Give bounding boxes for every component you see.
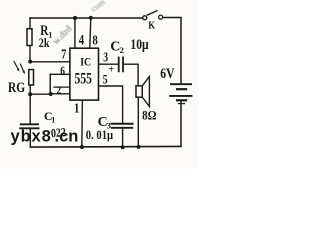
- label 6V: [160, 65, 175, 82]
- wire pin 2 upper: [53, 86, 70, 88]
- speaker LS cone: [142, 77, 149, 107]
- switch K right contact: [159, 15, 163, 19]
- wire pin 6: [50, 73, 70, 75]
- wire pin 5: [99, 86, 123, 124]
- capacitor C1 plate top: [20, 123, 39, 125]
- svg-text:2: 2: [57, 85, 62, 97]
- battery B1 plate long top: [170, 83, 192, 85]
- label 555: [75, 71, 93, 88]
- label RG: [8, 78, 25, 95]
- svg-text:ybx8: ybx8: [11, 127, 52, 145]
- junction dot C3 ground: [121, 145, 125, 149]
- pink watermark streak: [51, 24, 74, 47]
- capacitor C1 plate bottom: [19, 127, 39, 129]
- switch K arm: [147, 11, 158, 16]
- svg-text:.cn: .cn: [55, 127, 79, 145]
- svg-text:0. 01μ: 0. 01μ: [86, 128, 114, 142]
- svg-text:3: 3: [103, 50, 108, 65]
- label pin 2: [57, 85, 62, 97]
- label R1: [40, 22, 49, 39]
- svg-text:10μ: 10μ: [130, 36, 149, 53]
- svg-text:7: 7: [61, 46, 66, 62]
- battery B1 plate short 2: [176, 99, 187, 101]
- speaker LS coil: [136, 86, 142, 97]
- svg-text:8Ω: 8Ω: [142, 108, 157, 123]
- label pin 1: [74, 100, 79, 115]
- label 2k: [39, 36, 50, 50]
- light arrows: [14, 61, 25, 74]
- svg-text:8: 8: [92, 32, 97, 48]
- label K: [148, 20, 155, 32]
- wire vertical pins 6-2: [49, 74, 51, 95]
- battery B1 plate long bottom: [169, 95, 192, 97]
- svg-text:IC: IC: [80, 56, 91, 69]
- wire node B to C1: [29, 94, 31, 124]
- wire left rail top lead: [29, 17, 31, 29]
- wire C1 to ground rail: [29, 128, 31, 147]
- junction dot pin 8 rail: [89, 16, 93, 20]
- node B junction dot: [28, 92, 32, 96]
- svg-text:5: 5: [103, 74, 108, 88]
- wire bottom rail: [30, 145, 182, 148]
- wire R1 to node A: [29, 46, 31, 63]
- label 0.01u: [86, 128, 114, 142]
- svg-text:1: 1: [51, 115, 55, 124]
- svg-text:1: 1: [74, 100, 79, 115]
- junction dot pin 1 ground: [80, 145, 84, 149]
- op IC 555 body: [70, 48, 99, 100]
- label pin 8: [92, 32, 97, 48]
- svg-text:555: 555: [75, 71, 93, 88]
- svg-text:+: +: [108, 65, 114, 76]
- node A junction dot: [28, 60, 32, 64]
- label 10u: [130, 36, 149, 53]
- wire node B to pins 2-6 vertical: [30, 93, 51, 95]
- svg-text:2k: 2k: [39, 36, 50, 50]
- resistor R1: [27, 29, 32, 46]
- svg-text:RG: RG: [8, 78, 25, 95]
- wire pin 1: [81, 100, 84, 147]
- capacitor C2 plate left: [118, 57, 120, 73]
- wire C2 to speaker: [124, 64, 138, 86]
- battery B1 bottom tick: [178, 103, 185, 105]
- battery B1 plate short 1: [176, 88, 187, 90]
- label pin 4: [79, 31, 85, 48]
- wire right rail lower: [180, 100, 182, 147]
- svg-text:6V: 6V: [160, 65, 175, 82]
- label C1 value 022: [51, 126, 67, 140]
- junction dot speaker ground: [137, 145, 141, 149]
- label pin 7: [61, 46, 66, 62]
- switch K left contact: [143, 16, 147, 20]
- label pin 3: [103, 50, 108, 65]
- wire top rail left segment: [29, 17, 142, 19]
- wire top rail right segment: [163, 17, 182, 19]
- pink watermark top: [89, 0, 107, 13]
- label pin 6: [60, 65, 65, 79]
- wire right rail upper: [180, 18, 182, 85]
- capacitor C3 plate top: [111, 123, 134, 125]
- junction dot pin 4 rail: [73, 16, 77, 20]
- wire pin 4: [74, 18, 76, 49]
- svg-text:6: 6: [60, 65, 65, 79]
- photoresistor RG: [29, 70, 34, 85]
- wire C3 to ground rail: [122, 128, 124, 147]
- label IC: [80, 56, 91, 69]
- wire pin 8: [90, 18, 91, 49]
- junction dot pins 2-6: [49, 92, 53, 96]
- label 8 ohm: [142, 108, 157, 123]
- svg-text:K: K: [148, 20, 155, 32]
- capacitor C3 plate bottom: [111, 127, 133, 129]
- wire pin 2 lower: [51, 93, 71, 95]
- svg-text:4: 4: [79, 31, 85, 48]
- wire RG to node B: [29, 85, 31, 95]
- wire pin 3: [99, 63, 119, 65]
- capacitor C2 plate right: [122, 57, 124, 73]
- svg-text:2: 2: [120, 45, 124, 55]
- wire speaker to ground rail: [137, 97, 139, 147]
- label pin 5: [103, 74, 108, 88]
- wire pin 7: [30, 61, 70, 63]
